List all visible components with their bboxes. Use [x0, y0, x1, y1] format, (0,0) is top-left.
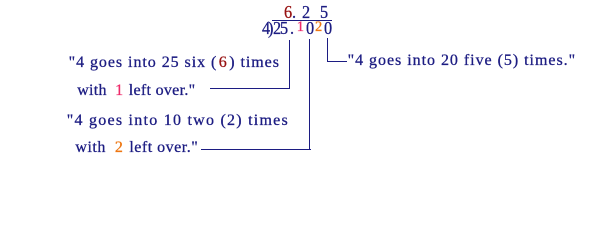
divisor 4 [262, 19, 270, 38]
pointer line 3 horizontal (to right caption) [327, 61, 346, 62]
division bracket ) [268, 19, 273, 38]
dividend digit 2 [273, 19, 281, 38]
pointer line 2 horizontal (to "with 2 left over") [201, 149, 311, 150]
carried remainder 2 (orange superscript) [315, 19, 322, 35]
dividend digit 0 (tenths) [306, 19, 314, 38]
caption line B: with 1 left over." [77, 82, 195, 100]
quotient digit 5 [320, 3, 328, 22]
carried remainder 1 (pink superscript) [297, 19, 304, 35]
pointer line 3 vertical (from under last 0) [327, 38, 328, 62]
division bar (vinculum) [272, 20, 332, 21]
pointer line 1 horizontal (to "with 1 left over") [210, 88, 289, 89]
quotient digit 6 (red) [284, 3, 292, 22]
caption line A: "4 goes into 25 six (6) times [69, 54, 280, 72]
caption right: "4 goes into 20 five (5) times." [348, 52, 577, 70]
pointer line 1 vertical (from under 25) [289, 40, 290, 90]
caption line C: "4 goes into 10 two (2) times [67, 112, 289, 130]
pointer line 2 vertical (from under first 0) [309, 39, 310, 150]
quotient decimal point [292, 3, 296, 22]
caption line D: with 2 left over." [75, 139, 198, 157]
dividend digit 0 (hundredths) [324, 19, 332, 38]
quotient digit 2 [302, 3, 310, 22]
dividend decimal point [290, 19, 294, 38]
dividend digit 5 [280, 19, 288, 38]
